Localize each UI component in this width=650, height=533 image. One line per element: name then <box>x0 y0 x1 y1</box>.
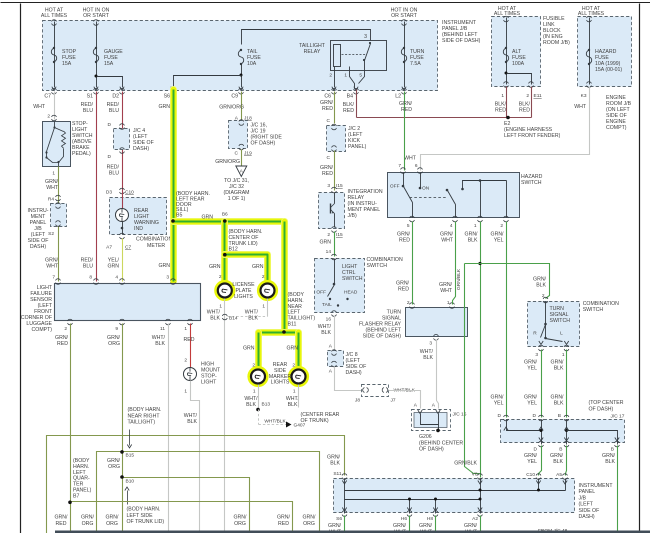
wire GRN/ORG to off-page arrow <box>241 150 243 167</box>
relay K1 taillight relay box <box>331 41 387 71</box>
svg-text:METER: METER <box>147 243 165 249</box>
svg-text:4: 4 <box>450 223 453 229</box>
svg-text:1: 1 <box>262 304 265 310</box>
wire tail fuse branch top <box>242 30 371 45</box>
wire tail fuse down <box>241 65 243 88</box>
svg-text:DASH): DASH) <box>579 514 595 520</box>
svg-text:RED: RED <box>495 108 506 114</box>
J/B internal bus wires <box>345 490 566 492</box>
svg-text:SWITCH: SWITCH <box>521 180 542 186</box>
svg-text:YEL: YEL <box>494 401 504 407</box>
wire GRN/ORG line2 <box>97 452 320 533</box>
svg-text:1: 1 <box>253 389 256 395</box>
svg-text:A5: A5 <box>556 472 562 478</box>
wire WHT/BLK marker1 to B13 <box>258 385 260 410</box>
ground G407 <box>286 422 292 428</box>
svg-text:B10: B10 <box>126 479 135 485</box>
svg-text:OFF: OFF <box>390 184 400 190</box>
svg-text:WHT: WHT <box>46 264 59 270</box>
svg-text:3: 3 <box>429 341 432 347</box>
svg-text:SWITCH: SWITCH <box>583 307 604 313</box>
svg-text:SWITCH: SWITCH <box>342 276 363 282</box>
hazard bottom pins <box>410 216 415 218</box>
switch light ctrl switch box <box>315 259 365 313</box>
wire alt fuse feed <box>506 18 508 85</box>
instrument panel J/B box (top, dashed) <box>43 21 438 91</box>
module light failure sensor box <box>55 284 201 321</box>
svg-text:7: 7 <box>398 163 401 169</box>
wire GRN/BLK TS pin1 to J/C17 <box>566 350 568 418</box>
svg-text:OF TRUNK LID): OF TRUNK LID) <box>127 519 165 525</box>
svg-text:GRN: GRN <box>158 104 170 110</box>
wire GRN/ORG sensor pin9 down <box>122 324 124 533</box>
svg-text:BLK: BLK <box>423 355 433 361</box>
connector row under top J/B <box>52 87 56 91</box>
svg-text:J/C 17: J/C 17 <box>611 414 625 420</box>
svg-text:1: 1 <box>447 300 450 306</box>
svg-text:9: 9 <box>115 326 118 332</box>
svg-text:GRN/: GRN/ <box>106 515 120 521</box>
svg-text:OR START: OR START <box>83 13 110 19</box>
junction B11 <box>282 330 286 334</box>
junction B10 <box>120 475 124 479</box>
wire GRN/RED to integration relay <box>334 151 336 191</box>
junction B13 <box>256 408 260 412</box>
switch stop light switch box <box>43 122 71 167</box>
svg-text:14: 14 <box>326 249 332 255</box>
wire turn fuse feed <box>404 22 406 88</box>
lamp high mount stop light <box>184 368 197 381</box>
svg-text:GRN/: GRN/ <box>277 515 291 521</box>
svg-text:LEFT FRONT FENDER): LEFT FRONT FENDER) <box>504 133 561 139</box>
wire WHT K3 to hazard switch pin6 <box>421 87 590 171</box>
svg-text:PANEL): PANEL) <box>348 144 367 150</box>
svg-text:GRN: GRN <box>209 264 221 270</box>
svg-text:BLK: BLK <box>330 461 340 467</box>
svg-text:S1: S1 <box>87 94 93 100</box>
svg-text:10A: 10A <box>247 61 257 67</box>
svg-text:RED: RED <box>401 107 412 113</box>
wire GRN highlighted B11 run down <box>281 222 288 333</box>
wire branch gauge to D2 <box>97 77 123 88</box>
wire YEL/GRN A7 to sensor pin4 <box>122 239 124 282</box>
wire GRN/BLK J/C17 right leg down <box>617 446 619 533</box>
wire GRN/RED B7 branch <box>71 502 293 533</box>
svg-text:C10: C10 <box>125 190 134 196</box>
svg-text:B4: B4 <box>347 94 353 100</box>
svg-text:ALL TIMES: ALL TIMES <box>578 11 605 17</box>
svg-text:8: 8 <box>89 275 92 281</box>
page right border <box>639 4 641 533</box>
svg-text:YEL: YEL <box>527 401 537 407</box>
page left border <box>20 4 22 533</box>
wire GRN highlighted B12 branch to lamp2 <box>225 255 268 284</box>
wire WHT/BLK high mount ground <box>191 381 200 533</box>
svg-text:7.5A: 7.5A <box>410 61 421 67</box>
wire WHT/BLK license lamp1 ground <box>224 299 226 533</box>
svg-text:1: 1 <box>184 389 187 395</box>
svg-text:BLK: BLK <box>187 419 197 425</box>
svg-text:B15: B15 <box>126 453 135 459</box>
svg-text:GRN/: GRN/ <box>393 523 407 529</box>
wire BLK/RED horizontal to B4 <box>357 117 532 119</box>
svg-text:BLU: BLU <box>109 171 119 177</box>
svg-text:V8: V8 <box>472 472 478 478</box>
turn signal switch internals <box>545 302 547 339</box>
svg-text:D: D <box>498 413 502 419</box>
svg-text:C10: C10 <box>526 472 535 478</box>
svg-text:16: 16 <box>326 317 332 323</box>
sensor top pins <box>56 279 61 281</box>
wire GRN highlighted marker feeds <box>259 329 299 336</box>
junction connector J/C 16 J/C 19 <box>229 121 248 149</box>
svg-text:BLU: BLU <box>83 108 93 114</box>
svg-text:1: 1 <box>293 389 296 395</box>
svg-text:BLK: BLK <box>605 459 615 465</box>
svg-text:RED: RED <box>57 341 68 347</box>
relay integration relay box <box>319 193 345 229</box>
svg-text:SWITCH: SWITCH <box>550 318 571 324</box>
svg-text:C: C <box>327 118 331 124</box>
wire WHT/BLK J/C8 to J8 <box>335 367 362 391</box>
svg-text:100A: 100A <box>512 61 525 67</box>
svg-text:BLK: BLK <box>155 341 165 347</box>
svg-text:D: D <box>108 154 112 160</box>
wire branch to pin2 <box>507 74 532 85</box>
svg-text:GRN/: GRN/ <box>81 515 95 521</box>
svg-text:1: 1 <box>344 73 347 79</box>
svg-text:1: 1 <box>52 171 55 177</box>
relay dashed link <box>342 54 367 56</box>
svg-text:ORG: ORG <box>106 521 118 527</box>
svg-text:2: 2 <box>262 274 265 280</box>
wire WHT C7 down <box>54 92 56 120</box>
wire GRN/YEL TS pin3 to J/C17 <box>541 350 543 418</box>
svg-text:RED: RED <box>278 521 289 527</box>
connector D3 / C10 <box>120 188 125 190</box>
lamp rear side marker 1 <box>250 368 267 385</box>
hazard switch internals <box>403 173 405 187</box>
svg-text:L2: L2 <box>395 94 401 100</box>
svg-text:RED: RED <box>322 171 333 177</box>
svg-text:I15: I15 <box>336 183 343 189</box>
svg-text:B12: B12 <box>229 247 238 253</box>
connector J8/J7 <box>362 385 389 397</box>
fuse STOP FUSE 15A <box>51 48 56 62</box>
svg-text:OFF: OFF <box>316 290 326 296</box>
junction connector J/C 8 <box>328 351 344 367</box>
fusible link block box <box>492 17 541 87</box>
wire GRN/RED C6 down <box>334 92 336 124</box>
svg-text:H6: H6 <box>401 516 407 522</box>
wire GRN/BLK J/C17 to A5 <box>566 446 567 476</box>
svg-text:(BODY HARN.: (BODY HARN. <box>127 507 161 513</box>
svg-text:J/B): J/B) <box>348 213 357 219</box>
svg-text:B11: B11 <box>288 322 297 328</box>
svg-text:RELAY: RELAY <box>304 49 321 55</box>
junction tail wire <box>240 74 243 77</box>
svg-text:R: R <box>533 331 537 337</box>
junction B5 <box>171 219 175 223</box>
wire GRN/ORG C9 down <box>241 92 243 121</box>
wire hazard fuse feed <box>589 18 591 85</box>
svg-text:ORG: ORG <box>303 521 315 527</box>
svg-text:BLU: BLU <box>83 264 93 270</box>
svg-text:2: 2 <box>219 274 222 280</box>
svg-text:TAILLIGHT): TAILLIGHT) <box>128 420 156 426</box>
svg-text:BLK: BLK <box>468 238 478 244</box>
svg-text:C: C <box>235 151 239 157</box>
svg-text:J19: J19 <box>244 151 252 157</box>
svg-text:GRN: GRN <box>252 264 264 270</box>
svg-text:(LEFT: (LEFT <box>579 502 594 508</box>
svg-text:GRN: GRN <box>158 263 170 269</box>
svg-text:WHT: WHT <box>404 156 417 162</box>
svg-text:HEAD: HEAD <box>344 290 358 296</box>
svg-text:LIGHTS: LIGHTS <box>234 294 253 300</box>
wire RED sensor pin1 to high mount stop light <box>190 324 192 368</box>
svg-text:5: 5 <box>359 73 362 79</box>
svg-text:NEAR RIGHT: NEAR RIGHT <box>128 413 161 419</box>
svg-text:SWITCH: SWITCH <box>367 263 388 269</box>
svg-text:OF TRUNK): OF TRUNK) <box>301 418 329 424</box>
svg-text:ORG: ORG <box>82 521 94 527</box>
svg-text:SIDE OF: SIDE OF <box>579 508 600 514</box>
junction connector J/C 17 <box>501 420 625 443</box>
svg-text:6: 6 <box>415 163 418 169</box>
svg-text:(BODY HARN.: (BODY HARN. <box>128 407 162 413</box>
svg-text:A7: A7 <box>106 245 112 251</box>
off-page arrow A to J/C31 J/C32 <box>236 166 247 177</box>
wire GRN/BLK hazard pin1 down to J/B <box>480 222 482 478</box>
fuse ALT FUSE 100A <box>503 48 508 62</box>
wire GRN/YEL hazard pin2 to J/C17 <box>506 222 508 418</box>
svg-text:GRN/: GRN/ <box>419 523 433 529</box>
svg-text:PEDAL): PEDAL) <box>72 151 91 157</box>
svg-text:GRN: GRN <box>286 346 298 352</box>
svg-text:J7: J7 <box>391 398 396 404</box>
svg-text:YEL: YEL <box>494 238 504 244</box>
switch turn signal switch box <box>528 302 580 347</box>
svg-text:TAIL: TAIL <box>322 302 332 308</box>
connector R4 <box>56 195 61 197</box>
svg-text:2: 2 <box>407 300 410 306</box>
svg-text:DASH): DASH) <box>30 244 46 250</box>
wire WHT/BLK light ctrl to J/C8 <box>334 316 336 350</box>
junction B6 <box>223 219 227 223</box>
svg-text:L: L <box>560 331 563 337</box>
wire GRN/YEL J/C17 to C10 <box>539 446 542 476</box>
light ctrl pin16 <box>332 311 337 313</box>
relay pin leads <box>334 67 336 88</box>
lamp rear light warning indicator <box>122 192 124 209</box>
relay turn signal flasher box <box>406 308 468 337</box>
svg-text:COMPT): COMPT) <box>32 327 53 333</box>
svg-text:S11: S11 <box>333 471 342 477</box>
svg-text:C7: C7 <box>125 245 131 251</box>
switch hazard switch box <box>388 173 520 218</box>
svg-text:GRN/: GRN/ <box>234 515 248 521</box>
svg-text:(TOP CENTER: (TOP CENTER <box>589 400 624 406</box>
junction connector J/C 15 <box>412 410 451 431</box>
svg-text:1 OF 1): 1 OF 1) <box>228 196 246 202</box>
svg-text:ORG: ORG <box>108 341 120 347</box>
svg-text:B: B <box>558 413 561 419</box>
engine room J/B hazard fuse box <box>578 17 632 87</box>
junction B12 <box>223 253 227 257</box>
svg-text:D3: D3 <box>106 190 112 196</box>
svg-text:SIDE OF DASH): SIDE OF DASH) <box>363 334 402 340</box>
svg-text:WHT: WHT <box>574 104 587 110</box>
ground G206 junction <box>436 429 440 433</box>
fuse HAZARD FUSE <box>586 50 591 64</box>
svg-text:3: 3 <box>327 183 330 189</box>
svg-text:GRN/ORG: GRN/ORG <box>215 159 240 165</box>
svg-text:D: D <box>108 122 112 128</box>
wire BLK/RED pin1 down <box>506 87 508 118</box>
svg-text:B5: B5 <box>176 213 182 219</box>
svg-text:R4: R4 <box>48 197 54 203</box>
svg-text:B: B <box>559 447 562 453</box>
svg-text:GRN: GRN <box>107 264 119 270</box>
svg-text:1: 1 <box>474 223 477 229</box>
svg-text:15A: 15A <box>104 61 114 67</box>
svg-text:SIDE OF DASH): SIDE OF DASH) <box>442 38 481 44</box>
svg-text:1: 1 <box>184 326 187 332</box>
svg-text:WHT: WHT <box>46 185 59 191</box>
svg-text:D: D <box>533 413 537 419</box>
J/C17 internal wires <box>507 420 542 431</box>
svg-text:IND: IND <box>134 226 143 232</box>
svg-text:A2: A2 <box>472 516 478 522</box>
svg-text:15A (00-01): 15A (00-01) <box>595 67 622 73</box>
svg-text:15A: 15A <box>62 61 72 67</box>
wire stop fuse feed <box>54 22 56 88</box>
connector A7 / C7 <box>120 233 125 235</box>
svg-text:C6: C6 <box>324 94 331 100</box>
fuse GAUGE FUSE 15A <box>93 48 98 62</box>
wire GRN/BLK line to S11 <box>47 436 345 533</box>
svg-text:GRN/: GRN/ <box>303 515 317 521</box>
stop light switch internals <box>54 122 56 128</box>
svg-text:ORG: ORG <box>108 464 120 470</box>
svg-text:GRN/: GRN/ <box>55 515 69 521</box>
wire GRN to light ctrl switch <box>334 232 336 257</box>
integration relay transistor <box>334 193 336 204</box>
page top border <box>1 2 650 4</box>
svg-text:COMPT): COMPT) <box>606 125 627 131</box>
svg-text:1: 1 <box>562 352 565 358</box>
flasher pin3 <box>434 335 439 337</box>
wire WHT/BLK license lamp2 to B14 <box>267 299 269 317</box>
wire WHT/BLK flasher to J/C15 <box>437 340 439 409</box>
junction E2 <box>506 116 510 120</box>
svg-text:K3: K3 <box>581 93 587 99</box>
lamp license plate light 1 <box>216 282 233 299</box>
wire GRN/RED hazard pin5 to flasher pin2 <box>412 222 414 305</box>
svg-text:2: 2 <box>526 93 529 99</box>
svg-text:COMBINATION: COMBINATION <box>136 237 172 243</box>
svg-text:BLK: BLK <box>554 366 564 372</box>
svg-text:GRN/: GRN/ <box>328 523 342 529</box>
svg-text:2: 2 <box>47 114 50 120</box>
svg-text:B6: B6 <box>222 212 228 218</box>
wire GRN/WHT from stop switch <box>58 167 60 282</box>
J/C15 internal wires <box>421 414 439 425</box>
svg-text:1: 1 <box>501 93 504 99</box>
svg-text:RED: RED <box>399 238 410 244</box>
junction on GRN/BLK <box>478 262 481 265</box>
svg-text:YEL: YEL <box>527 459 537 465</box>
svg-text:D: D <box>534 447 538 453</box>
svg-text:BLK: BLK <box>288 402 298 408</box>
svg-text:BLK: BLK <box>246 402 256 408</box>
wire GRN/BLK branch to turn signal switch <box>465 264 550 299</box>
svg-text:GRN/ORG: GRN/ORG <box>219 105 244 111</box>
svg-text:OF DASH): OF DASH) <box>589 406 614 412</box>
light ctrl switch internals <box>334 259 336 285</box>
svg-text:DASH): DASH) <box>133 146 149 152</box>
svg-text:GRN/BLK: GRN/BLK <box>454 461 477 467</box>
svg-text:2: 2 <box>184 358 187 364</box>
wire RED/BLU S1 to sensor pin8 <box>96 92 98 282</box>
wire GRN/BLK branch down joins V8 wire <box>465 264 480 474</box>
wire GRN S6 highlighted main run to sensor pin3 <box>170 90 177 282</box>
svg-text:B7: B7 <box>73 493 79 499</box>
sensor bottom pins <box>68 319 73 321</box>
svg-text:WHT: WHT <box>33 104 46 110</box>
svg-text:WHT: WHT <box>441 238 454 244</box>
dashed ground lead to G407 <box>258 410 260 425</box>
svg-text:3: 3 <box>535 352 538 358</box>
wire RED/BLU D2 down <box>122 92 124 192</box>
svg-text:RED: RED <box>398 287 409 293</box>
svg-text:4: 4 <box>115 275 118 281</box>
svg-text:BLK: BLK <box>210 316 220 322</box>
svg-text:ORG: ORG <box>234 521 246 527</box>
svg-text:S6: S6 <box>164 94 170 100</box>
bottom section divider bar <box>55 531 650 533</box>
lamp license plate light 2 <box>259 282 276 299</box>
relay coil <box>334 45 341 67</box>
wire WHT/BLK marker2 ground lead <box>298 385 300 408</box>
svg-text:WHT/BLK: WHT/BLK <box>264 419 286 425</box>
svg-text:GRN: GRN <box>319 240 331 246</box>
svg-text:RED: RED <box>519 108 530 114</box>
svg-text:3: 3 <box>166 275 169 281</box>
junction B15 <box>120 450 124 454</box>
svg-text:YEL: YEL <box>527 366 537 372</box>
J/B bottom pins <box>342 511 347 513</box>
combination meter rear light warning box <box>110 198 167 235</box>
svg-text:C7: C7 <box>44 94 51 100</box>
svg-text:OF DASH): OF DASH) <box>419 447 444 453</box>
svg-text:BLK: BLK <box>248 316 258 322</box>
svg-text:B14: B14 <box>229 316 238 322</box>
junction connector J/C 2 <box>327 126 346 152</box>
svg-text:ROOM J/B): ROOM J/B) <box>543 40 570 46</box>
svg-text:OR START: OR START <box>391 13 418 19</box>
svg-text:GRN/: GRN/ <box>464 523 478 529</box>
svg-text:ALL TIMES: ALL TIMES <box>41 13 68 19</box>
svg-text:WHT: WHT <box>440 288 453 294</box>
svg-text:LIGHT: LIGHT <box>201 380 217 386</box>
instrument panel J/B small box <box>51 204 67 227</box>
svg-text:RED: RED <box>322 106 333 112</box>
svg-text:BLU: BLU <box>109 108 119 114</box>
svg-text:GRN/BLK: GRN/BLK <box>456 268 462 290</box>
svg-text:BLK: BLK <box>536 283 546 289</box>
